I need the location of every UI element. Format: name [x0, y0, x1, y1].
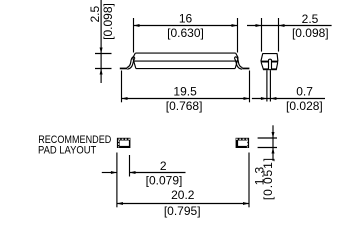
- dimension 16: right extension line: [237, 18, 239, 53]
- dimension 2.5 height: dimension line vertical: [100, 0, 102, 83]
- dimension 20.2: right extension line: [248, 153, 250, 208]
- dimension 2.5 end-view: left extension line: [261, 18, 263, 52]
- side view body left chamfer: [133, 53, 136, 69]
- dimension 16: left arrow: [134, 24, 140, 27]
- end view body upper trapezoid: [261, 54, 278, 62]
- dimension 2.5 height: top tick: [95, 53, 112, 55]
- svg-text:2: 2: [160, 159, 167, 173]
- svg-text:2.5: 2.5: [302, 12, 319, 26]
- svg-text:19.5: 19.5: [173, 85, 197, 99]
- dimension 16: dimension line: [134, 25, 238, 27]
- dimension 16: right arrow: [232, 24, 238, 27]
- end view body seam line: [261, 61, 278, 63]
- dimension 2.5 height: up arrow: [100, 69, 103, 75]
- side view body right chamfer: [235, 53, 238, 69]
- dimension 16: left extension line: [133, 18, 135, 53]
- svg-text:16: 16: [179, 11, 193, 25]
- dimension 2 pad width: right line segment: [130, 172, 186, 174]
- dimension 19.5: dimension line: [121, 98, 249, 100]
- side view right gull-wing lead: [234, 57, 249, 69]
- svg-text:0.7: 0.7: [296, 85, 313, 99]
- dimension 19.5: left extension line: [121, 71, 123, 103]
- dimension 0.7: right arrow: [270, 97, 276, 100]
- svg-text:[0.768]: [0.768]: [166, 99, 203, 113]
- svg-text:[0.028]: [0.028]: [286, 99, 323, 113]
- dimension 19.5: right extension line: [249, 71, 251, 103]
- dimension 2 pad width: right extension line: [129, 155, 131, 177]
- dimension 2 pad width: right arrow: [130, 171, 136, 174]
- svg-text:[0.098]: [0.098]: [292, 26, 329, 40]
- svg-text:[0.098]: [0.098]: [101, 3, 115, 40]
- dimension 19.5: right arrow: [244, 97, 250, 100]
- side view left gull-wing lead: [120, 57, 135, 69]
- dimension 2.5 end-view: right arrow: [279, 24, 285, 27]
- dimension 2.5 end-view: left arrow: [256, 24, 262, 27]
- dimension 2.5 height: down arrow: [100, 48, 103, 54]
- dimension 2 pad width: left line segment: [102, 172, 117, 174]
- dimension 1.3 pad height: dimension line vertical: [272, 125, 274, 161]
- dimension 2 pad width: left arrow: [111, 171, 117, 174]
- dimension 20.2: left arrow: [117, 202, 123, 205]
- svg-text:[0.051]: [0.051]: [261, 157, 275, 200]
- dimension 1.3 pad height: bottom tick: [258, 147, 277, 149]
- end view body bottom line: [263, 68, 277, 70]
- left pad: [117, 138, 130, 148]
- svg-text:[0.079]: [0.079]: [146, 173, 183, 187]
- dimension 2 pad width: left extension line shared with 20.2: [116, 153, 118, 208]
- svg-text:PAD LAYOUT: PAD LAYOUT: [38, 145, 97, 157]
- dimension 1.3 pad height: top tick: [258, 137, 277, 139]
- right pad: [236, 138, 250, 148]
- end view center tab: [268, 59, 272, 69]
- dimension 2.5 height: bottom tick: [95, 68, 112, 70]
- svg-text:[0.795]: [0.795]: [164, 204, 201, 218]
- side view body bottom line: [136, 68, 235, 70]
- end view body lower trapezoid: [261, 63, 278, 70]
- dimension 1.3 pad height: down arrow: [272, 132, 275, 138]
- dimension 20.2: dimension line: [117, 203, 249, 205]
- side view body top line: [135, 52, 235, 54]
- dimension 1.3 pad height: up arrow: [272, 148, 275, 154]
- end view right lead line: [269, 70, 271, 101]
- svg-text:[0.630]: [0.630]: [167, 26, 204, 40]
- dimension 2.5 end-view: dimension line: [247, 25, 332, 27]
- side view body seam line: [133, 60, 238, 62]
- dimension 0.7: dimension line: [252, 98, 325, 100]
- dimension 0.7: left arrow: [261, 97, 267, 100]
- dimension 2.5 end-view: right extension line: [278, 18, 280, 52]
- end view left lead line: [266, 70, 268, 101]
- dimension 20.2: right arrow: [243, 202, 249, 205]
- svg-text:20.2: 20.2: [171, 188, 195, 202]
- dimension 19.5: left arrow: [122, 97, 128, 100]
